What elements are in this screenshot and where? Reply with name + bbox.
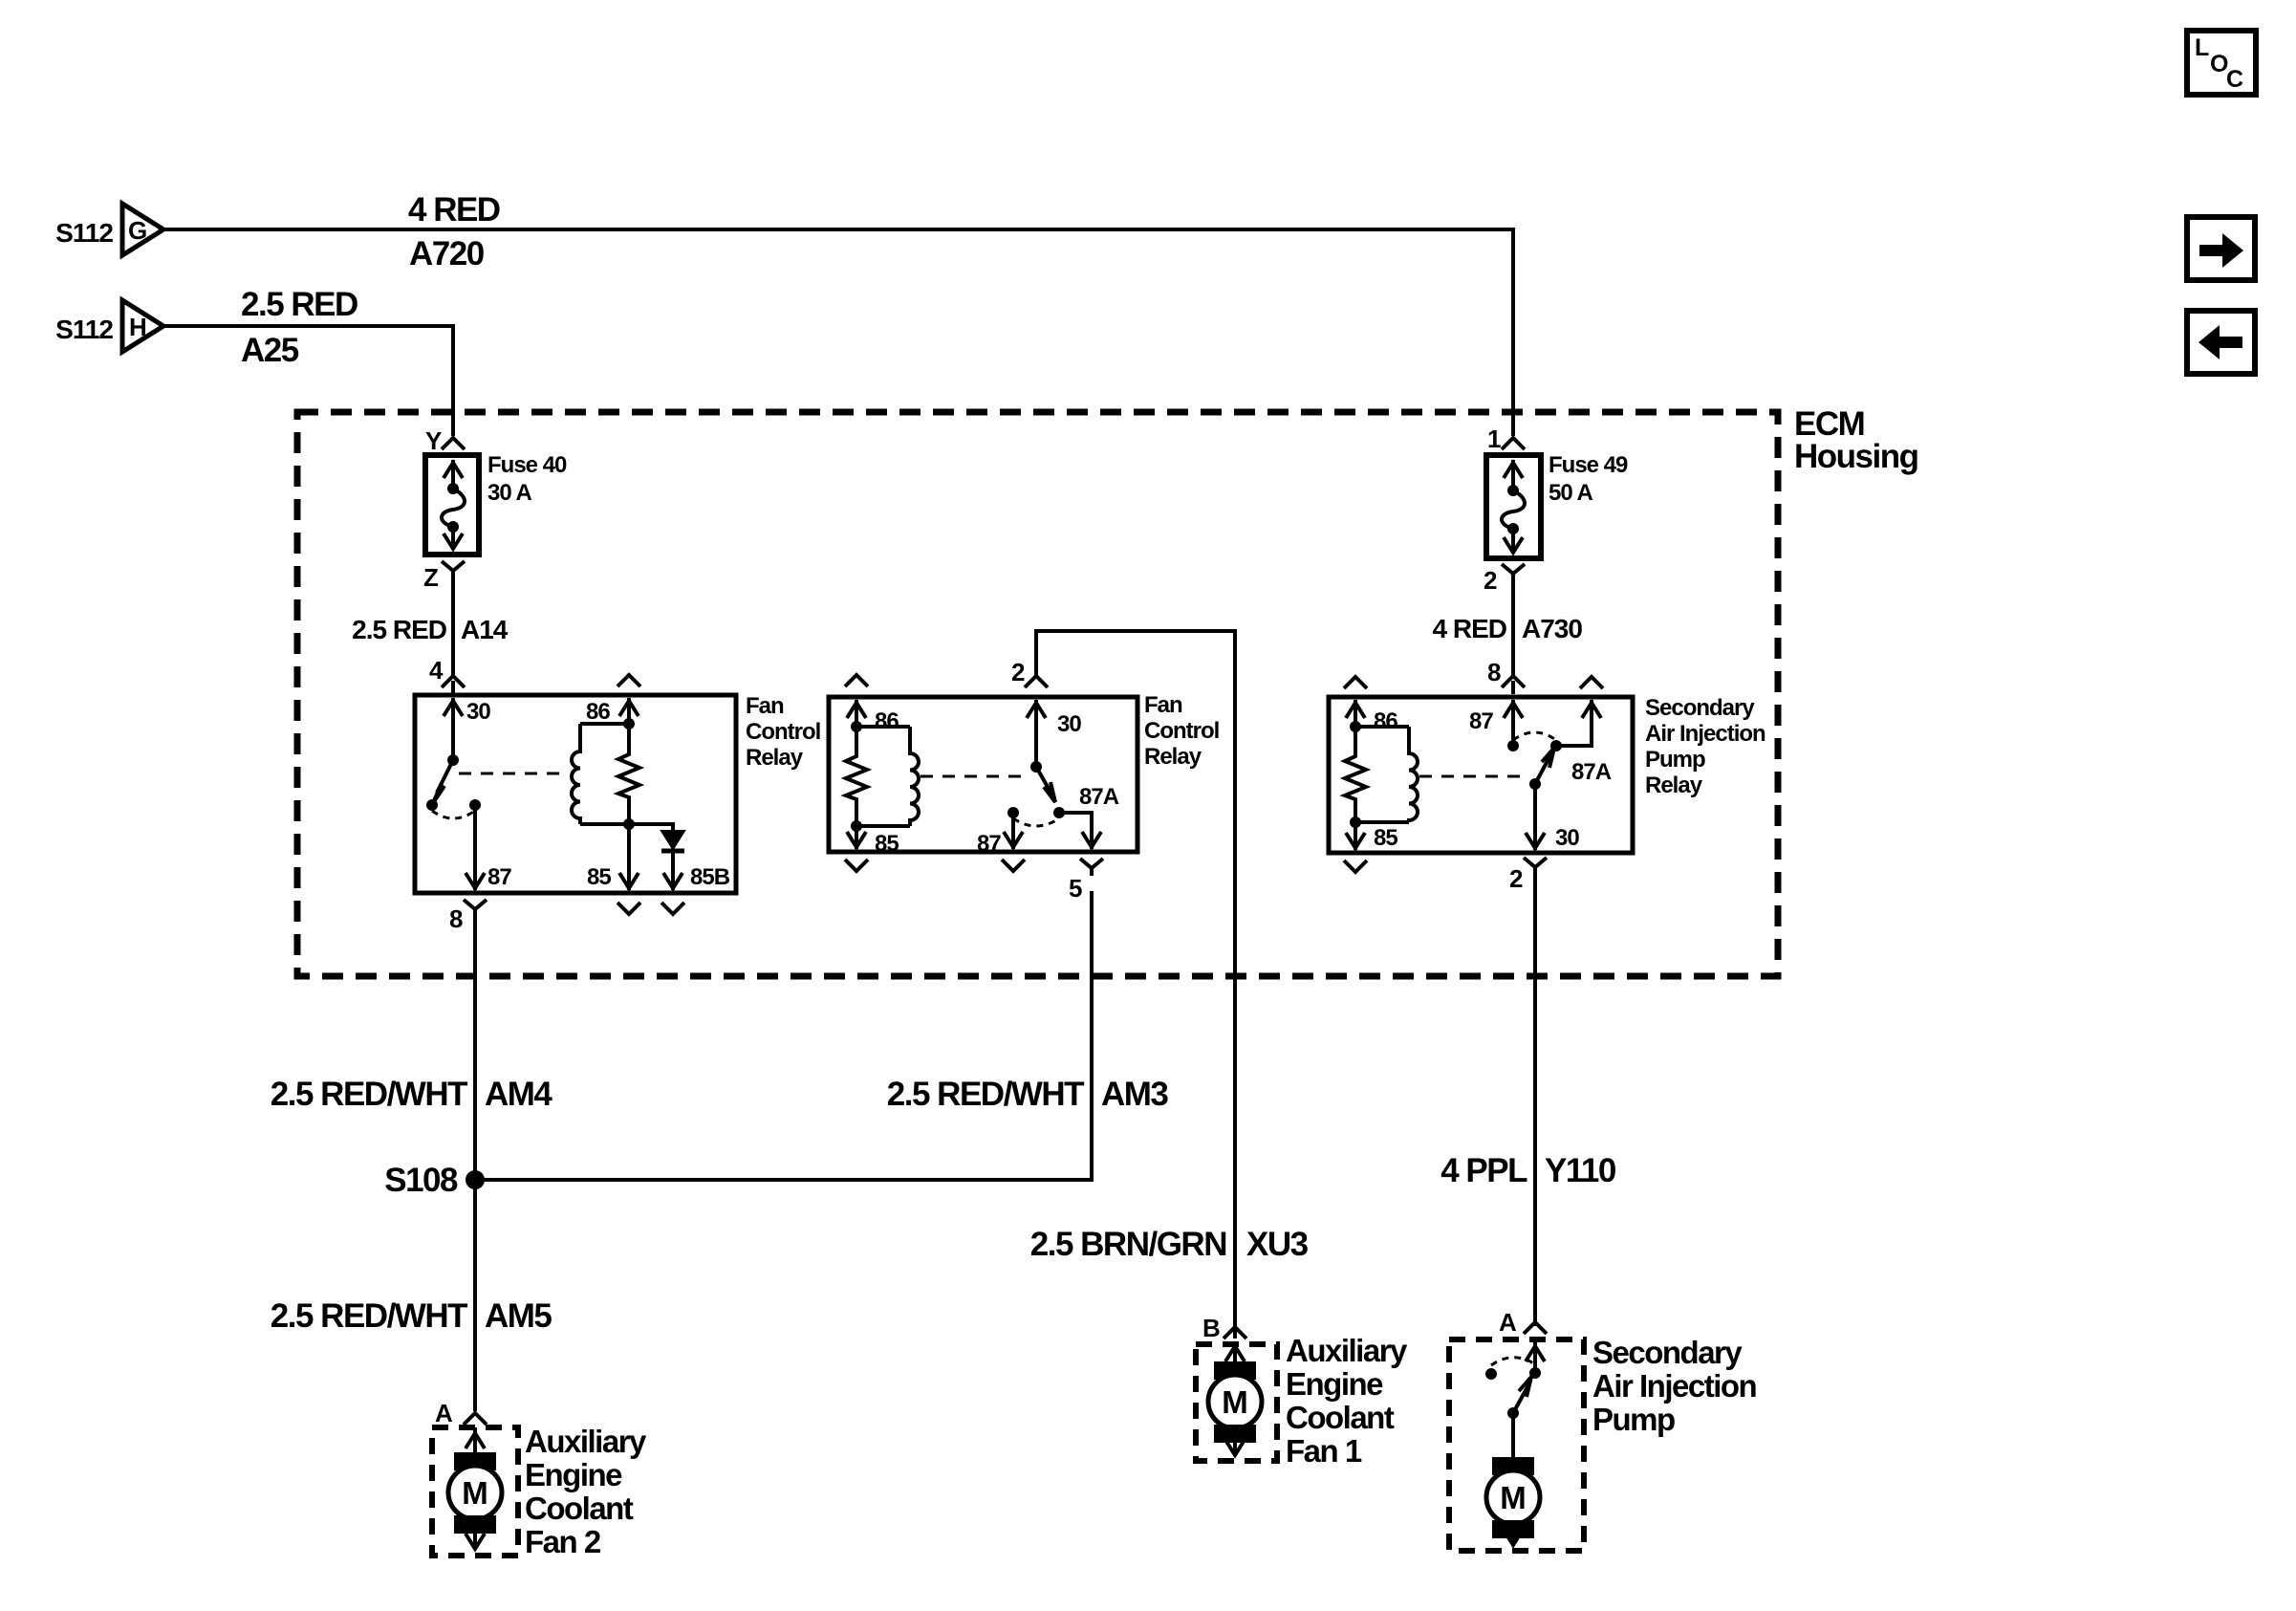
dashed throw arc of pump switch bbox=[1491, 1358, 1535, 1365]
svg-text:4 PPL: 4 PPL bbox=[1440, 1152, 1527, 1189]
node 86 of relay K1 bbox=[623, 718, 635, 729]
node 85 of relay K1 bbox=[623, 818, 635, 830]
svg-text:Fan: Fan bbox=[1144, 692, 1182, 718]
fan 1 motor dashed box bbox=[1196, 1344, 1277, 1461]
svg-text:87: 87 bbox=[1469, 708, 1493, 734]
pin 85 wire of relay K3 bbox=[1354, 822, 1357, 850]
pin 86 chevron above relay K1 bbox=[617, 675, 640, 686]
pin 87 wire of relay K2 bbox=[1011, 813, 1015, 849]
fan 1 motor wire out bbox=[1233, 1443, 1237, 1453]
svg-text:S112: S112 bbox=[55, 315, 113, 344]
coil top link of relay K2 bbox=[856, 725, 910, 729]
svg-text:Engine: Engine bbox=[1286, 1366, 1383, 1402]
pin 30 wire of relay K1 bbox=[451, 698, 455, 760]
svg-text:Fan 2: Fan 2 bbox=[525, 1524, 601, 1559]
node 86 of relay K2 bbox=[851, 721, 862, 732]
switch arm of pump bbox=[1507, 1407, 1519, 1419]
coil bottom link of relay K3 bbox=[1355, 820, 1409, 824]
svg-text:30: 30 bbox=[1057, 711, 1081, 737]
svg-text:Engine: Engine bbox=[525, 1457, 622, 1492]
svg-text:2.5 RED: 2.5 RED bbox=[241, 286, 357, 323]
dashed actuator link of relay K3 bbox=[1419, 775, 1524, 778]
pin 86 wire of relay K1 bbox=[627, 698, 631, 724]
fuse 40 bbox=[425, 452, 567, 555]
wire S108 to fan control relay 2 pin 5 bbox=[475, 891, 1092, 1180]
relay K1 box bbox=[415, 695, 736, 893]
coil of relay K2 bbox=[910, 727, 919, 826]
pin 85 chevron below relay K1 bbox=[617, 903, 640, 914]
wire 2.5 BRN/GRN XU3: relay K2 pin 2 to fan 1 bbox=[1036, 631, 1235, 1339]
svg-text:Relay: Relay bbox=[1144, 744, 1202, 770]
svg-text:85: 85 bbox=[1374, 825, 1397, 851]
pump motor wire bbox=[1511, 1413, 1515, 1457]
relay K2 box bbox=[829, 697, 1137, 852]
dashed actuator link of relay K2 bbox=[921, 775, 1025, 778]
svg-text:4: 4 bbox=[429, 656, 444, 685]
svg-text:85: 85 bbox=[875, 831, 899, 857]
svg-text:30 A: 30 A bbox=[487, 480, 531, 506]
resistor of relay K2 bbox=[846, 727, 867, 826]
svg-text:2.5 RED: 2.5 RED bbox=[352, 615, 447, 644]
node 85 of relay K2 bbox=[851, 820, 862, 832]
svg-text:C: C bbox=[2226, 66, 2243, 93]
pin 30 wire of relay K2 bbox=[1034, 700, 1038, 767]
coil bottom link of relay K2 bbox=[856, 824, 910, 828]
svg-text:AM5: AM5 bbox=[485, 1297, 552, 1335]
coil of relay K3 bbox=[1409, 727, 1418, 822]
node 85 of relay K3 bbox=[1350, 816, 1361, 828]
coil bottom link of relay K1 bbox=[580, 822, 629, 826]
svg-text:Auxiliary: Auxiliary bbox=[525, 1424, 647, 1459]
svg-text:30: 30 bbox=[466, 699, 490, 725]
svg-text:87: 87 bbox=[977, 831, 1001, 857]
pump dashed box bbox=[1449, 1339, 1584, 1551]
wire 4 RED A720: S112-G to fuse 49 bbox=[163, 229, 1513, 436]
left-arrow box bbox=[2187, 311, 2255, 374]
pin 87 chevron below relay K2 bbox=[1002, 860, 1025, 871]
right-arrow box bbox=[2187, 217, 2255, 280]
resistor of relay K3 bbox=[1345, 727, 1366, 822]
svg-text:1: 1 bbox=[1487, 425, 1501, 453]
coil top link of relay K3 bbox=[1355, 725, 1409, 729]
connector S112-H bbox=[55, 300, 163, 352]
coil top link of relay K1 bbox=[580, 722, 629, 726]
dashed throw arc of relay K1 bbox=[432, 811, 475, 818]
svg-text:Fuse 40: Fuse 40 bbox=[487, 452, 567, 478]
svg-text:Air Injection: Air Injection bbox=[1592, 1368, 1757, 1404]
svg-text:4 RED: 4 RED bbox=[408, 191, 500, 229]
pump motor wire out bbox=[1511, 1538, 1515, 1545]
pin 86 chevron above relay K3 bbox=[1344, 677, 1367, 688]
fan 2 motor wire in bbox=[473, 1427, 477, 1452]
pin 85 chevron below relay K3 bbox=[1344, 860, 1367, 872]
svg-text:Control: Control bbox=[746, 719, 820, 745]
svg-text:Pump: Pump bbox=[1645, 747, 1705, 773]
svg-text:2: 2 bbox=[1509, 864, 1523, 893]
wire 2.5 RED/WHT AM5: S108 to fan 2 bbox=[473, 1180, 477, 1411]
svg-text:2: 2 bbox=[1011, 658, 1025, 686]
svg-text:Relay: Relay bbox=[746, 745, 804, 771]
relay K3 box bbox=[1329, 697, 1633, 853]
fan 2 motor dashed box bbox=[432, 1427, 518, 1556]
dashed throw arc of relay K2 bbox=[1013, 818, 1059, 826]
svg-text:86: 86 bbox=[1374, 708, 1397, 734]
svg-text:2.5 RED/WHT: 2.5 RED/WHT bbox=[887, 1076, 1084, 1113]
pin 5 wire of relay K2 (87A throw) bbox=[1059, 813, 1092, 849]
svg-text:S108: S108 bbox=[384, 1162, 458, 1199]
dashed actuator link of relay K1 bbox=[459, 773, 562, 775]
connector S112-G bbox=[55, 204, 163, 255]
svg-text:85: 85 bbox=[587, 864, 611, 890]
fan 2 motor wire out bbox=[473, 1534, 477, 1547]
coil of relay K1 bbox=[572, 724, 580, 824]
pin 85 wire of relay K2 bbox=[855, 826, 858, 849]
switch of pump bbox=[1529, 1367, 1541, 1379]
pin 30 wire of relay K3 bbox=[1533, 784, 1537, 850]
diode of relay K1 bbox=[661, 831, 684, 849]
fuse 49 bbox=[1486, 452, 1628, 558]
svg-text:Secondary: Secondary bbox=[1592, 1335, 1743, 1370]
svg-text:Coolant: Coolant bbox=[525, 1491, 634, 1526]
svg-text:87: 87 bbox=[487, 864, 511, 890]
svg-text:87A: 87A bbox=[1571, 759, 1612, 785]
svg-text:87A: 87A bbox=[1079, 784, 1119, 810]
switch of relay K3 bbox=[1529, 778, 1541, 790]
pin 86 wire of relay K2 bbox=[855, 700, 858, 727]
motor M of pump bbox=[1486, 1457, 1540, 1538]
svg-text:30: 30 bbox=[1555, 825, 1579, 851]
svg-text:XU3: XU3 bbox=[1246, 1226, 1309, 1263]
motor M of fan 1 bbox=[1208, 1361, 1262, 1443]
svg-text:B: B bbox=[1202, 1314, 1220, 1342]
pin 86 chevron above relay K2 bbox=[845, 675, 868, 686]
svg-text:50 A: 50 A bbox=[1549, 480, 1592, 506]
svg-text:AM4: AM4 bbox=[485, 1076, 552, 1113]
svg-text:A: A bbox=[1499, 1308, 1517, 1337]
svg-text:A: A bbox=[435, 1399, 453, 1427]
LOC reference box bbox=[2187, 31, 2256, 95]
svg-text:5: 5 bbox=[1069, 874, 1082, 903]
svg-text:S112: S112 bbox=[55, 218, 113, 248]
svg-text:A730: A730 bbox=[1522, 614, 1582, 643]
svg-text:Housing: Housing bbox=[1794, 438, 1918, 475]
svg-text:Auxiliary: Auxiliary bbox=[1286, 1333, 1408, 1368]
pin 87 wire of relay K3 bbox=[1511, 700, 1515, 746]
svg-text:86: 86 bbox=[875, 708, 899, 734]
pin 87 wire of relay K1 bbox=[473, 805, 477, 890]
svg-text:Secondary: Secondary bbox=[1645, 695, 1755, 721]
pin 86 wire of relay K3 bbox=[1354, 700, 1357, 727]
svg-text:Fan 1: Fan 1 bbox=[1286, 1433, 1362, 1469]
svg-text:8: 8 bbox=[1487, 658, 1501, 686]
wire 4 RED A730: fuse 49 to relay pin 8 bbox=[1511, 581, 1515, 676]
ECM housing dashed box bbox=[297, 412, 1778, 976]
svg-text:Y: Y bbox=[425, 426, 442, 455]
svg-text:Air Injection: Air Injection bbox=[1645, 721, 1765, 747]
svg-text:A14: A14 bbox=[461, 615, 509, 644]
wire 2.5 RED A14: fuse 40 to relay pin 4 bbox=[451, 578, 455, 676]
svg-text:Fan: Fan bbox=[746, 693, 784, 719]
wire 2.5 RED A25: S112-H to fuse 40 bbox=[163, 326, 453, 436]
pin 87A wire of relay K3 bbox=[1556, 700, 1592, 746]
svg-text:L: L bbox=[2195, 34, 2209, 61]
svg-text:Pump: Pump bbox=[1592, 1402, 1675, 1437]
svg-text:Fuse 49: Fuse 49 bbox=[1549, 452, 1628, 478]
pump wire in bbox=[1533, 1339, 1537, 1373]
dashed throw arc of relay K3 bbox=[1513, 732, 1556, 740]
svg-text:86: 86 bbox=[586, 699, 610, 725]
svg-text:A25: A25 bbox=[241, 332, 299, 369]
svg-text:4 RED: 4 RED bbox=[1433, 614, 1507, 643]
svg-text:AM3: AM3 bbox=[1101, 1076, 1168, 1113]
switch of relay K2 bbox=[1030, 761, 1042, 773]
motor M of fan 2 bbox=[448, 1452, 502, 1534]
svg-text:2.5 RED/WHT: 2.5 RED/WHT bbox=[271, 1297, 467, 1335]
pin 85 wire of relay K1 bbox=[627, 824, 631, 890]
svg-text:H: H bbox=[129, 313, 147, 341]
svg-text:8: 8 bbox=[449, 904, 463, 933]
svg-text:2.5 RED/WHT: 2.5 RED/WHT bbox=[271, 1076, 467, 1113]
svg-text:85B: 85B bbox=[690, 864, 730, 890]
svg-text:Coolant: Coolant bbox=[1286, 1400, 1395, 1435]
svg-text:A720: A720 bbox=[409, 235, 485, 272]
node 86 of relay K3 bbox=[1350, 721, 1361, 732]
svg-text:Relay: Relay bbox=[1645, 773, 1703, 798]
resistor of relay K1 bbox=[618, 724, 639, 824]
wire 2.5 RED/WHT AM4: relay K1 pin 8 to S108 bbox=[473, 917, 477, 1180]
svg-text:2: 2 bbox=[1484, 566, 1497, 595]
svg-text:Z: Z bbox=[423, 563, 439, 592]
svg-text:G: G bbox=[128, 216, 147, 245]
pin 85 chevron below relay K2 bbox=[845, 860, 868, 871]
pin 87A chevron above relay K3 bbox=[1580, 677, 1603, 688]
switch of relay K1 bbox=[447, 754, 459, 766]
wire 4 PPL Y110: relay K3 pin 2 to pump bbox=[1533, 875, 1537, 1326]
svg-text:Y110: Y110 bbox=[1545, 1152, 1616, 1189]
svg-text:2.5 BRN/GRN: 2.5 BRN/GRN bbox=[1030, 1226, 1226, 1263]
diode branch wire of relay K1 bbox=[629, 824, 673, 890]
fan 1 motor wire in bbox=[1233, 1344, 1237, 1361]
svg-text:Control: Control bbox=[1144, 718, 1219, 744]
pin 85B chevron below relay K1 bbox=[661, 903, 684, 914]
